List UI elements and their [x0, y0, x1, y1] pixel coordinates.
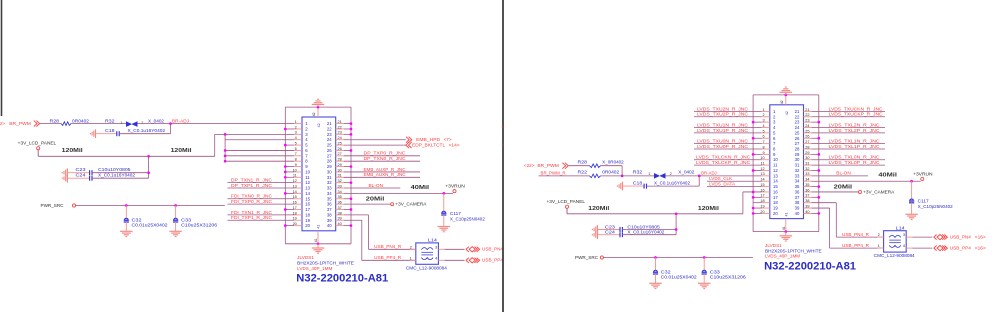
- svg-text:R28: R28: [50, 118, 60, 123]
- svg-text:X_C10p25N0402: X_C10p25N0402: [918, 204, 954, 209]
- wire +3V vertical to pin 16 (right page): [742, 192, 744, 214]
- svg-text:0R0402: 0R0402: [602, 170, 620, 175]
- svg-text:38: 38: [338, 211, 342, 215]
- svg-text:11: 11: [305, 175, 310, 180]
- svg-text:21: 21: [338, 120, 342, 124]
- connector JLVDS1 box (left page): [302, 117, 336, 231]
- junction C32 (left page): [125, 204, 128, 207]
- JLVDS1 pin stubs right (left page): [336, 123, 344, 125]
- svg-text:20: 20: [305, 223, 310, 228]
- svg-text:+3V_CAMERA: +3V_CAMERA: [395, 202, 426, 207]
- svg-text:BL-ON: BL-ON: [836, 171, 851, 176]
- junction +3V feed (left page): [224, 133, 227, 136]
- svg-text:<14>: <14>: [449, 142, 461, 147]
- wire pin39 to USB_PP4_R (right page): [812, 207, 830, 209]
- svg-text:X_C10p25N0402: X_C10p25N0402: [450, 216, 486, 221]
- svg-text:BR-ADJ: BR-ADJ: [701, 171, 717, 176]
- capacitor C23 (left page): [67, 172, 89, 174]
- junction C23/C24 tap (left page): [147, 155, 150, 158]
- wire bottom ground rail (right page): [753, 231, 819, 233]
- svg-text:37: 37: [795, 195, 800, 200]
- svg-text:20Mil: 20Mil: [366, 197, 385, 203]
- capacitor C23 (right page): [598, 229, 620, 231]
- svg-text:40: 40: [795, 211, 800, 216]
- svg-text:40: 40: [338, 222, 342, 226]
- wire L14 pin3 to USB_PN4 port (left page): [445, 248, 465, 250]
- wire +3V to pin 4 (left page): [225, 139, 294, 141]
- junction C23/C24 tap (right page): [675, 212, 678, 215]
- svg-text:R32: R32: [633, 170, 643, 175]
- svg-text:14: 14: [773, 179, 778, 184]
- ground C117 (right page): [911, 203, 913, 215]
- svg-text:LVDS_TXL2N_R_JNC: LVDS_TXL2N_R_JNC: [829, 122, 880, 127]
- wire pin 18 stub (right page): [753, 202, 762, 204]
- wire BR_PWM (left page): [40, 123, 61, 125]
- wire EMB_AUXN_R_JNC (left page): [344, 176, 420, 178]
- svg-text:4: 4: [762, 124, 764, 128]
- svg-text:<22>: <22>: [524, 163, 535, 168]
- svg-text:N32-2200210-A81: N32-2200210-A81: [764, 260, 856, 272]
- svg-text:27: 27: [338, 152, 342, 156]
- svg-text:27: 27: [795, 141, 800, 146]
- wire C18 to BR-ADJ (right page): [646, 185, 699, 187]
- svg-text:1: 1: [410, 256, 412, 260]
- svg-text:R22: R22: [578, 170, 588, 175]
- svg-text:LVDS_TXL0N_R_JNC: LVDS_TXL0N_R_JNC: [829, 155, 880, 160]
- port USB_PP4 (left page): [466, 258, 469, 263]
- svg-text:36: 36: [338, 201, 342, 205]
- junction C32 (right page): [654, 256, 657, 259]
- wire FDI_TXP1_R_JNC (left page): [228, 219, 295, 221]
- wire LVDS_TXLCKP_R_JNC (right page): [694, 164, 762, 166]
- svg-text:JLVDS1: JLVDS1: [297, 255, 315, 260]
- wire +3V_LCD_PANEL (left page): [38, 155, 215, 157]
- wire +3V vertical to pin 3 (left page): [214, 134, 216, 156]
- ground C33 (right page): [703, 274, 705, 283]
- ground C33 (left page): [175, 222, 177, 231]
- svg-text:2: 2: [141, 121, 143, 125]
- JLVDS1 pin numbers inside left (right page): [773, 109, 778, 216]
- svg-text:30: 30: [795, 157, 800, 162]
- svg-text:25: 25: [338, 141, 342, 145]
- svg-text:7: 7: [762, 140, 764, 144]
- svg-text:31: 31: [805, 162, 809, 166]
- svg-text:LVDS_TXL1N_R_JNC: LVDS_TXL1N_R_JNC: [829, 139, 880, 144]
- svg-text:+3VRUN: +3VRUN: [445, 184, 465, 189]
- node BR-ADJ (left page): [169, 122, 172, 125]
- JLVDS1 pin numbers outside right (left page): [338, 120, 342, 226]
- wire LVDS_TXU2P_R_JNC (right page): [694, 116, 762, 118]
- svg-text:BR_PWM_R: BR_PWM_R: [541, 171, 566, 176]
- svg-text:USB_PP4: USB_PP4: [482, 258, 504, 263]
- svg-text:C10u25X31206: C10u25X31206: [181, 223, 218, 228]
- wire LVDS_TXLCKN_R_JNC (right page): [694, 159, 762, 161]
- svg-text:+3V_LCD_PANEL: +3V_LCD_PANEL: [18, 140, 57, 145]
- capacitor C117 (right page): [911, 181, 913, 199]
- svg-text:EMB_HPD: EMB_HPD: [416, 137, 440, 142]
- capacitor C32 (right page): [655, 258, 657, 271]
- svg-text:24: 24: [795, 125, 800, 130]
- svg-text:PWR_SRC: PWR_SRC: [41, 203, 64, 208]
- svg-text:FDI_TXN0_R_JNC: FDI_TXN0_R_JNC: [231, 194, 272, 199]
- svg-text:19: 19: [773, 206, 778, 211]
- wire R28 to R32 (left page): [71, 123, 126, 125]
- svg-text:18: 18: [305, 212, 310, 217]
- left page frame line: [1, 0, 3, 116]
- svg-text:FDI_TXP0_R_JNC: FDI_TXP0_R_JNC: [231, 199, 272, 204]
- svg-text:USB_PN4: USB_PN4: [482, 247, 504, 252]
- junction C117 (left page): [442, 192, 445, 195]
- svg-text:LVDS_40P_1MM: LVDS_40P_1MM: [297, 266, 333, 271]
- svg-text:31: 31: [338, 174, 342, 178]
- svg-text:DP_TXP1_R_JNC: DP_TXP1_R_JNC: [231, 183, 272, 188]
- JLVDS1 pin 41 stub bottom (right page): [785, 219, 787, 232]
- svg-text:37: 37: [338, 206, 342, 210]
- svg-text:13: 13: [305, 186, 310, 191]
- svg-text:20: 20: [773, 211, 778, 216]
- capacitor C24 (right page): [598, 234, 620, 236]
- svg-text:LVDS_TXU1P_R_JNC: LVDS_TXU1P_R_JNC: [697, 128, 748, 133]
- wire LVDS_TXUCKN_R_JNC (right page): [812, 110, 886, 112]
- svg-text:C24: C24: [76, 173, 87, 178]
- svg-text:2: 2: [410, 245, 412, 249]
- svg-text:40Mil: 40Mil: [411, 185, 430, 191]
- svg-text:4: 4: [435, 256, 437, 260]
- svg-text:LVDS_TXU2P_R_JNC: LVDS_TXU2P_R_JNC: [697, 112, 748, 117]
- svg-text:L14: L14: [896, 225, 906, 230]
- svg-text:USB_PP4: USB_PP4: [950, 246, 972, 251]
- svg-text:120Mil: 120Mil: [62, 148, 83, 154]
- wire ground bus right (right page): [818, 95, 820, 232]
- wire R32 to pin 1 (left page): [138, 123, 295, 125]
- wire C23 to tap (right page): [622, 229, 676, 231]
- wire LVDS_CLK (right page): [707, 180, 762, 182]
- svg-text:C18: C18: [105, 128, 115, 133]
- wire top ground rail (left page): [285, 106, 351, 108]
- page separator line: [502, 0, 504, 312]
- svg-text:X_C0.1u16Y0402: X_C0.1u16Y0402: [627, 230, 665, 235]
- svg-text:24: 24: [327, 137, 332, 142]
- svg-text:3: 3: [435, 245, 437, 249]
- svg-text:8: 8: [295, 158, 297, 162]
- svg-text:39: 39: [338, 217, 342, 221]
- svg-text:X_C0.1u16Y0402: X_C0.1u16Y0402: [128, 128, 166, 133]
- svg-text:18: 18: [773, 200, 778, 205]
- svg-text:R28: R28: [578, 160, 588, 165]
- svg-text:C10u25X31206: C10u25X31206: [710, 275, 747, 280]
- svg-text:X_C0.1u16Y0402: X_C0.1u16Y0402: [98, 173, 136, 178]
- wire LVDS_TXU1N_R_JNC (right page): [694, 127, 762, 129]
- svg-text:25: 25: [327, 143, 332, 148]
- junctions ground pins left bus (left page): [285, 128, 294, 130]
- capacitor C32 (left page): [125, 206, 127, 219]
- svg-text:24: 24: [805, 124, 809, 128]
- JLVDS1 pin numbers inside right (left page): [327, 121, 332, 228]
- svg-text:C32: C32: [661, 269, 672, 274]
- svg-text:42: 42: [785, 111, 789, 115]
- svg-text:21: 21: [327, 121, 332, 126]
- svg-text:36: 36: [805, 188, 809, 192]
- svg-text:30: 30: [805, 156, 809, 160]
- wire EMB_AUXP_R_JNC (left page): [344, 171, 420, 173]
- svg-text:LVDS_DATA: LVDS_DATA: [709, 181, 735, 186]
- svg-text:C0.01u25X0402: C0.01u25X0402: [132, 223, 169, 228]
- svg-text:C32: C32: [132, 217, 143, 222]
- svg-text:22: 22: [338, 125, 342, 129]
- connector JLVDS1 box (right page): [770, 105, 804, 219]
- wire +3V_CAMERA (right page): [812, 191, 859, 193]
- svg-text:C18: C18: [633, 181, 643, 186]
- wire pin39 to USB_PP4_R (left page): [344, 219, 362, 221]
- svg-text:28: 28: [795, 146, 800, 151]
- svg-text:40: 40: [805, 210, 809, 214]
- svg-text:19: 19: [305, 218, 310, 223]
- svg-text:<7>: <7>: [444, 137, 453, 142]
- svg-text:3: 3: [295, 131, 297, 135]
- junctions ground pins left bus (right page): [753, 121, 762, 123]
- svg-text:2: 2: [295, 125, 297, 129]
- wire LVDS_TXL1P_R_JNC (right page): [812, 148, 886, 150]
- wire DP_TXN1_R_JNC (left page): [228, 182, 295, 184]
- choke L14 pins (right page): [877, 236, 883, 238]
- wire LVDS_TXUCKP_R_JNC (right page): [812, 116, 886, 118]
- svg-text:29: 29: [805, 151, 809, 155]
- svg-text:26: 26: [795, 136, 800, 141]
- svg-text:29: 29: [338, 163, 342, 167]
- wire BL-ON (right page): [812, 175, 869, 177]
- capacitor C33 (right page): [703, 258, 705, 271]
- svg-text:33: 33: [795, 173, 800, 178]
- svg-text:BR_PWM: BR_PWM: [537, 163, 559, 168]
- svg-text:R32: R32: [105, 118, 115, 123]
- junction bottom ground (right page): [784, 230, 787, 233]
- svg-text:33: 33: [327, 186, 332, 191]
- svg-text:BL-ON: BL-ON: [369, 183, 384, 188]
- svg-text:CMC_L12-9008084: CMC_L12-9008084: [874, 253, 916, 258]
- JLVDS1 pin stubs right (right page): [804, 110, 812, 112]
- svg-text:31: 31: [795, 163, 800, 168]
- wire L14 pin4 to USB_PP4 port (left page): [445, 259, 465, 261]
- svg-text:21: 21: [805, 108, 809, 112]
- wire LVDS_TXU0P_R_JNC (right page): [694, 148, 762, 150]
- svg-text:1: 1: [295, 120, 297, 124]
- wire BR-ADJ down to C18 (left page): [170, 124, 172, 134]
- svg-text:39: 39: [795, 206, 800, 211]
- JLVDS1 pin numbers outside left (right page): [760, 108, 764, 214]
- capacitor C117 (left page): [443, 193, 445, 211]
- svg-text:35: 35: [795, 184, 800, 189]
- svg-text:35: 35: [805, 183, 809, 187]
- wire L14 pin4 to USB_PP4 port (right page): [913, 247, 933, 249]
- svg-text:LVDS_TXU0P_R_JNC: LVDS_TXU0P_R_JNC: [697, 144, 748, 149]
- wire BR_PWM (right page): [569, 165, 590, 167]
- svg-text:9: 9: [762, 151, 764, 155]
- svg-text:27: 27: [327, 153, 332, 158]
- svg-text:26: 26: [805, 135, 809, 139]
- svg-text:USB_PN4: USB_PN4: [950, 235, 972, 240]
- svg-text:+3VRUN: +3VRUN: [913, 171, 933, 176]
- wire LVDS_TXU1P_R_JNC (right page): [694, 132, 762, 134]
- svg-text:C117: C117: [450, 211, 462, 216]
- svg-text:EMB_AUXN_R_JNC: EMB_AUXN_R_JNC: [364, 172, 406, 177]
- wire LVDS_TXL0N_R_JNC (right page): [812, 159, 886, 161]
- svg-text:25: 25: [795, 130, 800, 135]
- wire LVDS_TXL0P_R_JNC (right page): [812, 164, 886, 166]
- svg-text:1: 1: [878, 244, 880, 248]
- junction +3V pin16 (right page): [752, 191, 755, 194]
- svg-text:14: 14: [305, 191, 310, 196]
- wire ground bus right (left page): [350, 107, 352, 244]
- JLVDS1 pin 42 stub top (left page): [317, 107, 319, 117]
- wire R32 to pin 13 (right page): [666, 175, 762, 177]
- svg-text:2: 2: [762, 113, 764, 117]
- ground C23 (left page): [66, 168, 68, 177]
- wire ground bus left (right page): [752, 95, 754, 232]
- wire LVDS_TXU0N_R_JNC (right page): [694, 143, 762, 145]
- JLVDS1 pin numbers outside left (left page): [293, 120, 297, 226]
- wire +3V feed vertical (left page): [224, 134, 226, 161]
- svg-text:29: 29: [327, 164, 332, 169]
- svg-text:28: 28: [327, 159, 332, 164]
- wire to R32 (right page): [601, 175, 655, 177]
- wire +3V_CAMERA (left page): [344, 203, 391, 205]
- svg-text:LVDS_TXLCKP_R_JNC: LVDS_TXLCKP_R_JNC: [696, 160, 750, 165]
- svg-text:X_0402: X_0402: [148, 118, 165, 123]
- wire DP_TXP0_R_JNC (left page): [344, 155, 420, 157]
- svg-text:FDI_TXP1_R_JNC: FDI_TXP1_R_JNC: [231, 215, 272, 220]
- svg-text:C33: C33: [181, 217, 192, 222]
- svg-text:17: 17: [305, 207, 310, 212]
- svg-text:X_0R0402: X_0R0402: [602, 160, 624, 165]
- svg-text:42: 42: [312, 112, 316, 116]
- port USB_PN4 (right page): [934, 235, 937, 240]
- svg-text:+3V_LCD_PANEL: +3V_LCD_PANEL: [547, 199, 586, 204]
- ground C32 (left page): [125, 222, 127, 231]
- svg-text:BR_PWM: BR_PWM: [9, 121, 31, 126]
- svg-text:C24: C24: [605, 230, 616, 235]
- wire +3V to pin 8 (left page): [224, 160, 227, 163]
- ground C24 (left page): [66, 174, 68, 183]
- svg-text:38: 38: [805, 199, 809, 203]
- svg-text:22: 22: [805, 113, 809, 117]
- ground C117 (left page): [443, 215, 445, 227]
- wire C24 to tap (right page): [622, 234, 676, 236]
- wire C23 to tap (left page): [92, 172, 149, 174]
- svg-text:USB_PP4_R: USB_PP4_R: [842, 243, 869, 248]
- svg-text:<16>: <16>: [975, 246, 987, 251]
- svg-text:C0.01u25X0402: C0.01u25X0402: [661, 275, 698, 280]
- JLVDS1 pin 42 stub top (right page): [785, 95, 787, 105]
- svg-text:LVDS_TXU0N_R_JNC: LVDS_TXU0N_R_JNC: [697, 139, 748, 144]
- svg-text:EMB_AUXP_R_JNC: EMB_AUXP_R_JNC: [364, 167, 406, 172]
- JLVDS1 pin 41 stub bottom (left page): [317, 231, 319, 244]
- svg-text:1: 1: [648, 172, 650, 176]
- svg-text:32: 32: [338, 179, 342, 183]
- svg-text:22: 22: [327, 126, 332, 131]
- svg-text:24: 24: [338, 136, 342, 140]
- wire LVDS_TXU2N_R_JNC (right page): [694, 110, 762, 112]
- svg-text:20Mil: 20Mil: [834, 184, 853, 190]
- svg-text:34: 34: [795, 179, 800, 184]
- svg-text:4: 4: [903, 244, 905, 248]
- node BR-ADJ (right page): [698, 174, 701, 177]
- wire bottom ground rail (left page): [285, 243, 351, 245]
- wire +3V to pin 6 (left page): [224, 149, 227, 152]
- svg-text:32: 32: [795, 168, 800, 173]
- svg-text:33: 33: [338, 184, 342, 188]
- svg-text:L14: L14: [428, 238, 438, 243]
- svg-text:35: 35: [327, 196, 332, 201]
- wire PWR_SRC (left page): [76, 205, 225, 207]
- svg-text:21: 21: [795, 109, 800, 114]
- svg-text:30: 30: [338, 168, 342, 172]
- svg-text:25: 25: [805, 129, 809, 133]
- svg-text:C23: C23: [76, 167, 87, 172]
- wire C23/C24 tap vertical (left page): [148, 156, 150, 178]
- svg-text:5: 5: [762, 129, 764, 133]
- capacitor C24 (left page): [67, 177, 89, 179]
- svg-text:36: 36: [327, 202, 332, 207]
- wire R28 to junction (right page): [601, 165, 623, 167]
- svg-text:N32-2200210-A81: N32-2200210-A81: [296, 273, 388, 285]
- svg-text:+3V_CAMERA: +3V_CAMERA: [863, 189, 894, 194]
- svg-text:1: 1: [762, 108, 764, 112]
- ground C18 (left page): [95, 129, 97, 138]
- svg-text:33: 33: [805, 172, 809, 176]
- junction R28/R22 (right page): [621, 174, 624, 177]
- JLVDS1 pin numbers outside right (right page): [805, 108, 809, 214]
- wire LVDS_TXL1N_R_JNC (right page): [812, 143, 886, 145]
- svg-text:12: 12: [773, 168, 778, 173]
- svg-text:C10u10Y0805: C10u10Y0805: [627, 224, 660, 229]
- svg-text:EDP_BKLTCTL: EDP_BKLTCTL: [412, 142, 446, 147]
- JLVDS1 pin numbers inside left (left page): [305, 121, 310, 228]
- wire PWR_SRC (right page): [604, 257, 753, 259]
- capacitor C18 (right page): [623, 185, 644, 187]
- svg-text:120Mil: 120Mil: [171, 148, 192, 154]
- svg-text:C33: C33: [710, 269, 721, 274]
- svg-text:2>: 2>: [0, 121, 5, 126]
- wire C23/C24 tap vertical (right page): [675, 214, 677, 235]
- svg-text:USB_PP4_R: USB_PP4_R: [374, 255, 401, 260]
- svg-text:3: 3: [903, 233, 905, 237]
- ground top (right page): [785, 92, 787, 95]
- svg-text:<16>: <16>: [975, 235, 987, 240]
- wire DP_TXP1_R_JNC (left page): [228, 187, 295, 189]
- wire L14 pin3 to USB_PN4 port (right page): [913, 236, 933, 238]
- wire +3V to pin 7 (left page): [224, 154, 227, 157]
- svg-text:38: 38: [327, 212, 332, 217]
- svg-text:3: 3: [762, 119, 764, 123]
- svg-text:LVDS_TXL1P_R_JNC: LVDS_TXL1P_R_JNC: [829, 144, 880, 149]
- svg-text:LVDS_TXUCKP_R_JNC: LVDS_TXUCKP_R_JNC: [829, 112, 883, 117]
- svg-text:13: 13: [773, 173, 778, 178]
- svg-text:42: 42: [780, 100, 784, 104]
- svg-text:120Mil: 120Mil: [588, 206, 609, 212]
- junction bottom ground (left page): [317, 242, 320, 245]
- svg-text:LVDS_TXUCKN_R_JNC: LVDS_TXUCKN_R_JNC: [829, 106, 883, 111]
- capacitor C18 (left page): [96, 133, 117, 135]
- ground top (left page): [317, 105, 319, 108]
- svg-text:26: 26: [327, 148, 332, 153]
- svg-text:X_C0.1u16Y0402: X_C0.1u16Y0402: [654, 181, 691, 186]
- svg-text:CMC_L12-9008084: CMC_L12-9008084: [406, 265, 448, 270]
- svg-text:LVDS_TXU2N_R_JNC: LVDS_TXU2N_R_JNC: [697, 106, 748, 111]
- JLVDS1 pin stubs left (left page): [294, 123, 302, 125]
- svg-text:16: 16: [305, 202, 310, 207]
- svg-text:27: 27: [805, 140, 809, 144]
- junction top ground (left page): [317, 106, 320, 109]
